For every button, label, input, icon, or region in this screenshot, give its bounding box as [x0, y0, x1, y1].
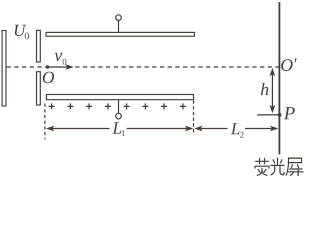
label 荧光屏 (fluorescent screen), drawn glyphs — [255, 158, 303, 176]
bottom terminal stem — [118, 100, 120, 114]
top terminal stem — [118, 20, 120, 32]
plus charges row under bottom plate — [49, 103, 186, 109]
label L2 — [231, 123, 244, 137]
L1 dimension arrow — [46, 126, 194, 132]
L1/L2 right dashed extension line — [193, 101, 195, 135]
axis dashed line (left part) — [7, 66, 47, 68]
v0 velocity arrow — [48, 64, 74, 70]
glyph 光 — [271, 158, 284, 175]
L2 dimension arrow — [194, 126, 278, 132]
screen vertical line — [278, 2, 280, 154]
top deflecting plate — [46, 32, 195, 36]
label O' — [281, 58, 296, 71]
top terminal circle — [116, 15, 122, 21]
plate P2: slitted anode upper segment — [37, 30, 41, 62]
label v0 — [55, 53, 67, 65]
node P: level tick — [257, 114, 279, 116]
glyph 荧 — [255, 159, 269, 176]
bottom terminal circle — [116, 113, 122, 119]
axis dashed line (right part) — [75, 66, 278, 68]
plate P1: left accelerating electrode — [2, 31, 6, 107]
bottom deflecting plate — [46, 95, 193, 100]
label O — [43, 72, 54, 84]
label U0 — [15, 25, 29, 39]
label L1 — [112, 122, 124, 136]
label h — [261, 83, 268, 95]
L1 left dashed extension line — [44, 104, 46, 140]
node P: dot on screen — [278, 113, 282, 117]
node O: electron dot on axis — [46, 65, 49, 68]
h dimension arrow — [270, 68, 276, 114]
label P — [284, 107, 295, 119]
glyph 屏 — [286, 158, 303, 176]
plate P2: slitted anode lower segment — [37, 72, 41, 105]
